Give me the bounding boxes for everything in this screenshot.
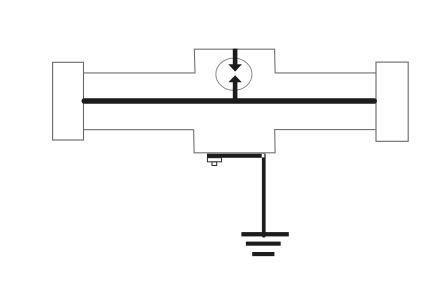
waveguide body bottom outline with output notch — [84, 130, 377, 153]
bypass capacitor terminal — [212, 162, 217, 166]
center conductor — [84, 98, 374, 104]
ground bar 3 — [252, 252, 274, 256]
ground bar 1 — [241, 232, 288, 236]
diode upper contact arrow (down) — [228, 49, 242, 72]
diode envelope circle — [216, 58, 252, 90]
output post (vertical) — [262, 154, 266, 236]
insulating gap at elbow — [262, 154, 265, 157]
bypass capacitor body — [207, 158, 221, 162]
output coupling bar — [207, 154, 262, 158]
waveguide body top outline with diode housing bump — [84, 49, 377, 73]
ground bar 2 — [246, 242, 281, 246]
right flange — [376, 62, 408, 141]
output post rounded lower end — [262, 234, 266, 238]
left flange — [53, 62, 84, 140]
diode lower contact arrow (up) — [228, 75, 241, 101]
